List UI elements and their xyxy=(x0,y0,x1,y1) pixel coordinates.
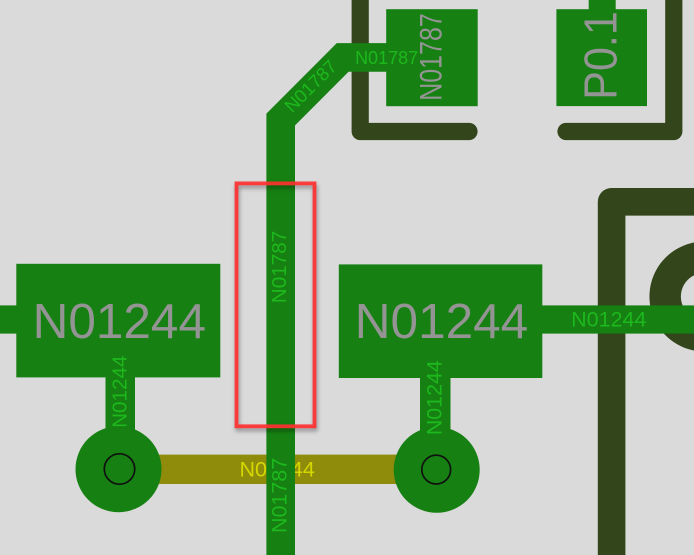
svg-text:N01787: N01787 xyxy=(268,458,292,533)
svg-text:N01787: N01787 xyxy=(355,48,418,68)
svg-text:N01244: N01244 xyxy=(423,360,447,435)
via pad right xyxy=(394,427,480,513)
stub on top of P0.1 pad xyxy=(589,0,616,10)
svg-text:N01787: N01787 xyxy=(414,13,449,101)
drill hole right via xyxy=(422,455,451,484)
selection highlight rectangle (red) xyxy=(237,183,315,426)
stub trace below left N01244 pad xyxy=(106,376,136,446)
copper rectangle pad N01244 (left) xyxy=(16,264,220,378)
svg-text:N01244: N01244 xyxy=(571,308,646,332)
via pad left xyxy=(76,426,162,512)
yellow bottom-layer trace N01244 between vias xyxy=(119,455,438,484)
trace N01244 to right edge xyxy=(542,305,694,333)
svg-text:N01244: N01244 xyxy=(33,294,206,349)
svg-text:N01244: N01244 xyxy=(355,294,528,349)
silkscreen outline right elbow xyxy=(566,0,674,132)
left tab of left N01244 pad xyxy=(0,305,17,333)
copper rectangle pad N01244 (right) xyxy=(339,264,543,378)
svg-text:N01244: N01244 xyxy=(109,355,132,427)
stub trace below right N01244 pad xyxy=(420,376,451,446)
drill hole left via xyxy=(104,454,134,484)
copper: trace N01787 (horizontal, diagonal, vertical run) xyxy=(281,57,390,555)
copper pad N01787 (top middle) xyxy=(386,9,478,106)
copper pad P0.1 (top right) xyxy=(556,9,647,106)
svg-text:P0.1: P0.1 xyxy=(576,11,627,99)
svg-text:N01787: N01787 xyxy=(268,231,291,303)
silkscreen outline left elbow xyxy=(360,0,469,132)
silkscreen rounded-corner outline bottom right xyxy=(612,202,694,555)
through-hole pad ring at right edge xyxy=(649,242,694,352)
